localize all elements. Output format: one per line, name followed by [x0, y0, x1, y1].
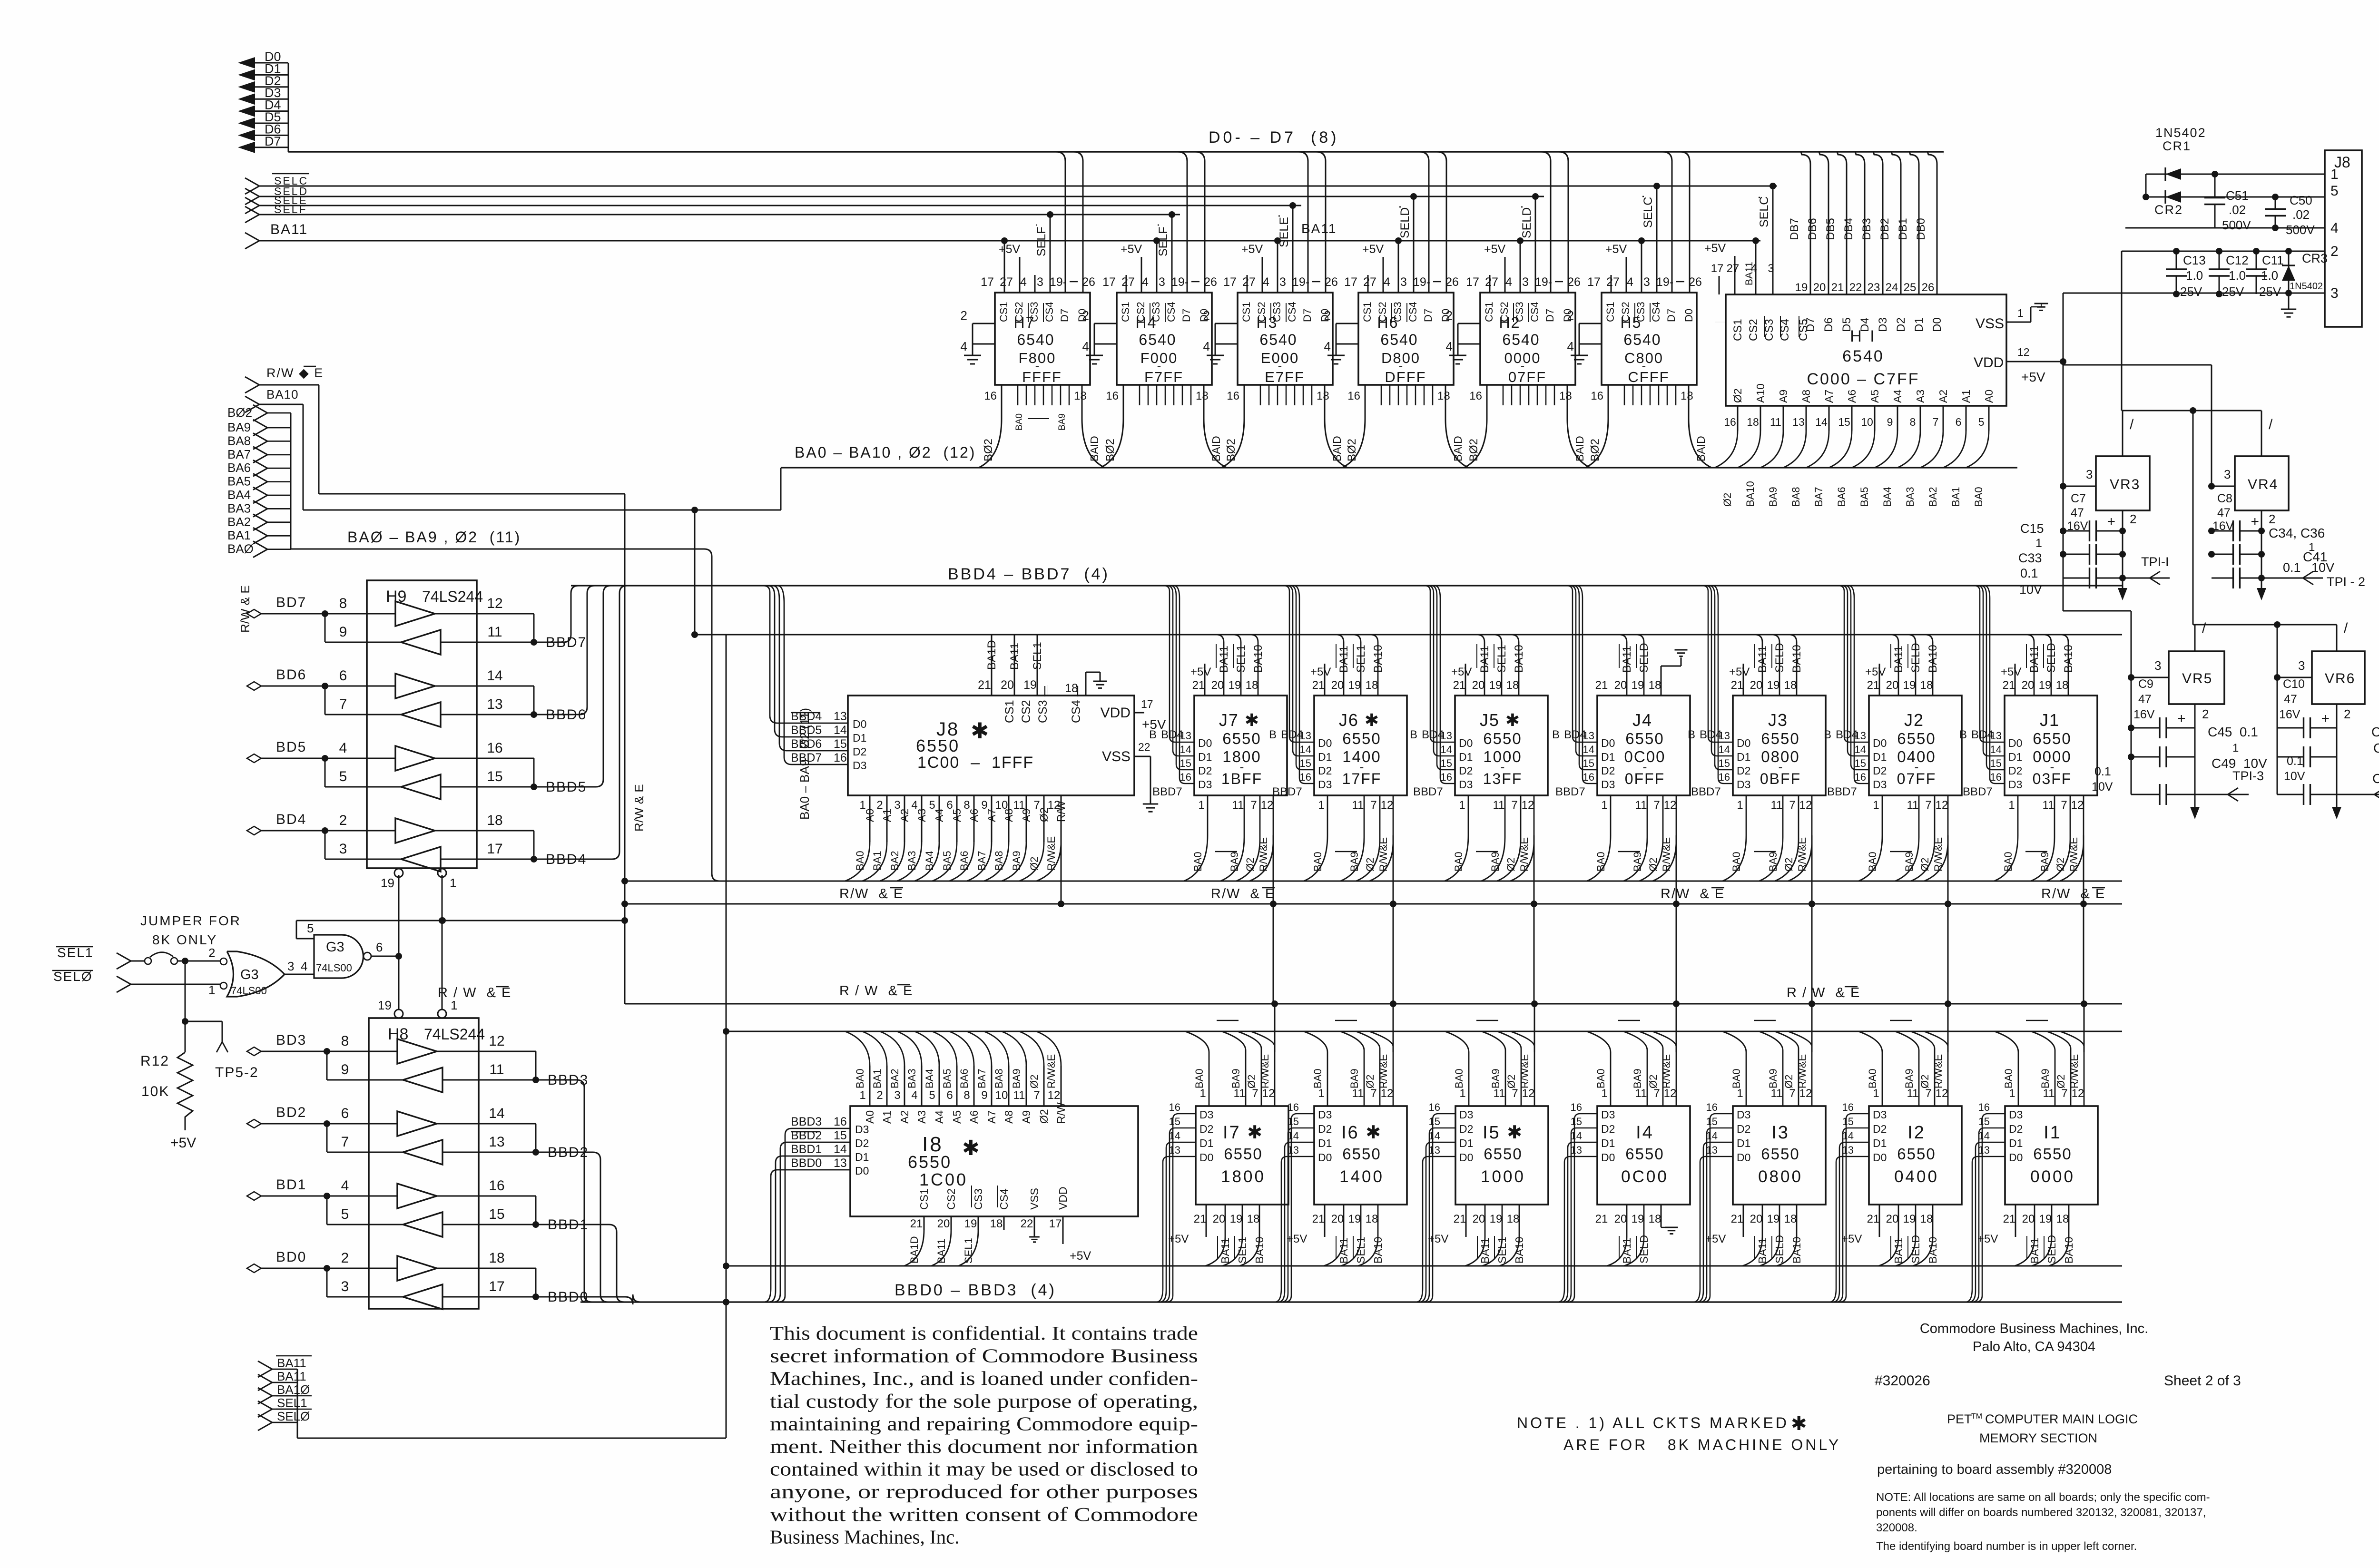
svg-text:D2: D2 [855, 1137, 869, 1149]
svg-text:2: 2 [339, 813, 347, 828]
svg-text:15: 15 [1300, 757, 1311, 769]
svg-text:D6: D6 [1822, 317, 1835, 332]
svg-text:CR1: CR1 [2163, 139, 2191, 153]
svg-text:15: 15 [1288, 1116, 1299, 1127]
svg-text:9: 9 [341, 1062, 349, 1078]
svg-text:18: 18 [1196, 390, 1209, 402]
svg-text:BD4: BD4 [1836, 728, 1858, 741]
svg-text:3: 3 [2154, 658, 2161, 673]
svg-text:27: 27 [1000, 275, 1013, 289]
svg-text:15: 15 [1706, 1116, 1718, 1127]
svg-text:16: 16 [1169, 1101, 1180, 1113]
regulator VR4 [2208, 365, 2289, 526]
svg-text:BA3: BA3 [227, 501, 251, 515]
svg-text:4: 4 [1384, 275, 1390, 289]
svg-text:I1: I1 [2044, 1123, 2062, 1143]
svg-text:3: 3 [287, 959, 294, 973]
svg-text:26: 26 [1325, 275, 1338, 289]
svg-text:CS1: CS1 [1120, 302, 1131, 322]
svg-text:D2: D2 [1318, 1123, 1332, 1135]
svg-text:16: 16 [984, 390, 997, 402]
svg-text:SEL1: SEL1 [277, 1396, 307, 1410]
svg-text:1: 1 [1737, 1087, 1743, 1100]
svg-text:16V: 16V [2212, 519, 2234, 533]
svg-text:47: 47 [2284, 693, 2297, 706]
svg-text:1: 1 [1318, 799, 1324, 812]
svg-text:1.0: 1.0 [2186, 268, 2203, 283]
svg-text:17: 17 [489, 1279, 504, 1294]
svg-text:D0: D0 [1199, 1151, 1213, 1164]
svg-text:D1: D1 [1913, 317, 1926, 332]
svg-text:24: 24 [1886, 281, 1898, 294]
ram J1 [1959, 586, 2097, 1004]
svg-text:Ø2: Ø2 [1783, 1075, 1795, 1088]
svg-text:18: 18 [1784, 1213, 1797, 1225]
svg-text:DFFF: DFFF [1385, 369, 1426, 385]
svg-text:13: 13 [1706, 1144, 1718, 1156]
svg-text:TP5-2: TP5-2 [215, 1065, 259, 1080]
svg-text:4: 4 [1567, 339, 1574, 353]
svg-text:D2: D2 [2009, 1123, 2023, 1135]
capacitor C51 [2204, 174, 2251, 232]
svg-text:R / W & E: R / W & E [1787, 985, 1860, 1000]
svg-text:6550: 6550 [1897, 730, 1936, 747]
svg-text:8: 8 [1910, 416, 1916, 428]
capacitor C50 [2265, 193, 2315, 237]
svg-text:16: 16 [1227, 390, 1239, 402]
svg-text:19-: 19- [1050, 275, 1067, 289]
svg-text:17: 17 [1466, 275, 1479, 289]
svg-text:6550: 6550 [1625, 730, 1664, 747]
svg-text:C13: C13 [2183, 253, 2206, 267]
svg-text:BA0: BA0 [1730, 852, 1742, 872]
svg-text:SEL1: SEL1 [1496, 1237, 1508, 1264]
svg-text:7: 7 [1250, 799, 1257, 812]
svg-text:BD2: BD2 [276, 1105, 306, 1120]
svg-text:7: 7 [341, 1134, 349, 1150]
svg-text:DB5: DB5 [1824, 218, 1837, 240]
svg-text:74LS244: 74LS244 [422, 588, 483, 605]
svg-text:2: 2 [2344, 707, 2350, 721]
svg-text:5: 5 [929, 1089, 935, 1102]
svg-text:19: 19 [1903, 1213, 1916, 1225]
svg-text:16V: 16V [2279, 708, 2300, 721]
svg-text:74LS00: 74LS00 [316, 962, 352, 974]
svg-text:16: 16 [1180, 771, 1191, 783]
svg-text:1: 1 [1737, 799, 1743, 812]
svg-text:6550: 6550 [1222, 730, 1261, 747]
svg-text:D7: D7 [1301, 309, 1313, 322]
svg-text:5: 5 [307, 921, 314, 935]
svg-text:16: 16 [1990, 771, 2002, 783]
svg-text:12: 12 [487, 596, 502, 611]
svg-text:SELC: SELC [1758, 196, 1771, 227]
svg-text:A9: A9 [1020, 1110, 1032, 1124]
svg-text:PET: PET [1947, 1412, 1972, 1426]
svg-text:CS3: CS3 [1392, 302, 1404, 322]
svg-text:1C00 – 1FFF: 1C00 – 1FFF [917, 754, 1034, 772]
svg-text:07FF: 07FF [1508, 369, 1546, 385]
svg-text:10V: 10V [2019, 582, 2042, 597]
svg-text:17: 17 [1587, 275, 1601, 289]
svg-text:16: 16 [1300, 771, 1311, 783]
svg-text:1: 1 [450, 876, 456, 890]
svg-text:BAID: BAID [1088, 436, 1101, 461]
svg-text:13: 13 [1978, 1144, 1990, 1156]
svg-text:4: 4 [339, 740, 347, 756]
capacitor C12 [2209, 248, 2249, 299]
regulator VR5 [2131, 620, 2224, 721]
svg-text:TPI-I: TPI-I [2141, 555, 2169, 569]
svg-text:D3: D3 [1459, 1108, 1473, 1121]
svg-text:12: 12 [1799, 1087, 1812, 1100]
svg-text:VDD: VDD [1974, 355, 2004, 371]
svg-text:BA0 – BA10 , Ø2 (12): BA0 – BA10 , Ø2 (12) [795, 444, 976, 461]
svg-text:ment. Neither this document no: ment. Neither this document nor informat… [770, 1435, 1198, 1457]
svg-text:.02: .02 [2229, 203, 2246, 217]
svg-text:✱: ✱ [971, 718, 989, 743]
svg-text:NOTE . 1) ALL CKTS MARKED: NOTE . 1) ALL CKTS MARKED [1517, 1414, 1789, 1431]
svg-text:BA4: BA4 [1881, 487, 1893, 507]
svg-text:7: 7 [1933, 416, 1939, 428]
svg-text:13FF: 13FF [1483, 770, 1523, 787]
svg-text:21: 21 [1731, 1213, 1744, 1225]
svg-text:VSS: VSS [1102, 749, 1131, 764]
svg-text:74LS244: 74LS244 [424, 1026, 485, 1043]
svg-text:8K ONLY: 8K ONLY [152, 932, 217, 947]
svg-text:3: 3 [341, 1279, 349, 1294]
svg-text:B: B [1149, 728, 1157, 741]
svg-text:BD4: BD4 [1971, 728, 1994, 741]
svg-text:14: 14 [1706, 1130, 1718, 1142]
svg-text:R/W&E: R/W&E [1377, 1054, 1389, 1088]
svg-text:14: 14 [487, 668, 502, 684]
svg-text:20: 20 [1331, 1213, 1344, 1225]
svg-text:D3: D3 [1873, 1108, 1887, 1121]
svg-text:Ø2: Ø2 [1647, 1075, 1659, 1088]
svg-text:12: 12 [1664, 799, 1677, 812]
svg-text:D0: D0 [1459, 737, 1473, 749]
svg-text:BA11: BA11 [277, 1356, 306, 1370]
svg-text:BAID: BAID [1331, 436, 1343, 461]
svg-text:Ø2: Ø2 [1647, 858, 1659, 872]
svg-text:21: 21 [2003, 679, 2015, 692]
svg-text:7: 7 [1653, 799, 1660, 812]
svg-text:BA11: BA11 [1892, 1237, 1905, 1264]
wire J8 pin2 line [2122, 251, 2325, 411]
svg-text:CFFF: CFFF [1628, 369, 1669, 385]
ram J8 [848, 635, 1166, 812]
svg-text:BA7: BA7 [227, 447, 251, 461]
svg-text:20: 20 [1001, 678, 1014, 692]
svg-text:COMPUTER MAIN LOGIC: COMPUTER MAIN LOGIC [1985, 1412, 2138, 1426]
svg-text:3: 3 [1400, 275, 1407, 289]
svg-text:19: 19 [1229, 679, 1241, 692]
svg-text:A5: A5 [1868, 390, 1881, 403]
svg-text:A0: A0 [864, 809, 876, 822]
wire R/W&amp;E feed line [319, 494, 628, 1004]
svg-text:18: 18 [1247, 1213, 1260, 1225]
svg-text:I2: I2 [1907, 1123, 1926, 1143]
svg-text:BD1: BD1 [276, 1177, 306, 1193]
svg-text:18: 18 [1506, 679, 1519, 692]
svg-text:18: 18 [1920, 1213, 1933, 1225]
svg-text:BA9: BA9 [1230, 1068, 1242, 1088]
svg-text:R/W&E: R/W&E [1661, 837, 1672, 872]
wire enable line G3 [296, 917, 625, 939]
svg-text:CS4: CS4 [998, 1188, 1010, 1210]
svg-text:CS4: CS4 [1407, 302, 1419, 322]
svg-text:BA5: BA5 [941, 1068, 953, 1088]
svg-text:BA0: BA0 [1312, 1068, 1324, 1088]
svg-text:A4: A4 [933, 809, 945, 822]
svg-text:BA0: BA0 [1192, 852, 1204, 872]
svg-text:SELD: SELD [1773, 643, 1786, 673]
wire BA10 input [245, 387, 303, 510]
svg-text:4: 4 [2330, 220, 2339, 236]
svg-text:✱: ✱ [962, 1137, 980, 1160]
svg-text:0.1: 0.1 [2020, 566, 2038, 580]
svg-text:BD4: BD4 [276, 812, 306, 827]
svg-text:11: 11 [1013, 1089, 1025, 1102]
svg-text:+5V: +5V [1705, 1233, 1726, 1245]
svg-text:BBD7: BBD7 [1827, 785, 1857, 798]
svg-text:J7 ✱: J7 ✱ [1219, 710, 1260, 730]
regulator VR3 [2063, 411, 2150, 526]
svg-text:SELD: SELD [2045, 643, 2058, 673]
svg-text:BA1: BA1 [1950, 487, 1962, 507]
svg-text:BBD0: BBD0 [791, 1156, 822, 1170]
svg-text:19: 19 [1795, 281, 1808, 294]
svg-text:26: 26 [1082, 275, 1095, 289]
svg-text:Ø2: Ø2 [1721, 493, 1733, 507]
svg-text:16: 16 [1571, 1101, 1582, 1113]
svg-text:BA9: BA9 [1489, 852, 1501, 872]
node D0-D7 output arrows [238, 49, 288, 153]
wire SELC [245, 174, 1777, 194]
svg-text:12: 12 [1522, 799, 1534, 812]
svg-text:A2: A2 [898, 1110, 911, 1124]
svg-text:/: / [2202, 620, 2206, 636]
svg-text:R/W&E: R/W&E [1932, 1054, 1944, 1088]
svg-text:8: 8 [963, 1089, 970, 1102]
svg-text:A4: A4 [933, 1110, 945, 1124]
svg-text:R/W&E: R/W&E [1661, 1054, 1672, 1088]
svg-text:13: 13 [489, 1134, 504, 1150]
ram I2 [1829, 1000, 1962, 1302]
svg-text:BA11: BA11 [1301, 221, 1337, 236]
svg-text:+5V: +5V [1977, 1233, 1998, 1245]
svg-text:D2: D2 [1873, 1123, 1887, 1135]
svg-text:11: 11 [1907, 799, 1919, 812]
svg-text:12: 12 [2071, 799, 2084, 812]
svg-text:+: + [2177, 711, 2186, 726]
svg-text:CS2: CS2 [1376, 302, 1388, 322]
svg-text:tial custody for the sole purp: tial custody for the sole purpose of ope… [770, 1390, 1198, 1412]
svg-text:D0: D0 [1318, 737, 1332, 749]
svg-text:15: 15 [1441, 757, 1452, 769]
svg-text:3: 3 [339, 841, 347, 857]
svg-text:+5V: +5V [1310, 666, 1331, 678]
svg-text:+5V: +5V [1841, 1233, 1862, 1245]
rom H3 [1203, 152, 1347, 468]
svg-text:BD4: BD4 [1161, 728, 1183, 741]
svg-text:/: / [2344, 620, 2348, 636]
svg-text:14: 14 [1978, 1130, 1990, 1142]
svg-text:13: 13 [1169, 1144, 1180, 1156]
svg-text:D2: D2 [1459, 1123, 1473, 1135]
svg-text:BA11: BA11 [1218, 646, 1230, 673]
svg-text:18: 18 [489, 1250, 504, 1266]
svg-text:BA11: BA11 [277, 1369, 306, 1383]
ram J3 [1688, 586, 1826, 1004]
svg-text:2: 2 [1203, 308, 1210, 323]
svg-text:VSS: VSS [1976, 316, 2004, 332]
svg-text:15: 15 [1429, 1116, 1440, 1127]
svg-text:07FF: 07FF [1897, 770, 1937, 787]
svg-text:Ø2: Ø2 [1028, 857, 1040, 871]
svg-text:13: 13 [487, 696, 502, 712]
svg-text:D0: D0 [1459, 1151, 1473, 1164]
svg-text:15: 15 [1169, 1116, 1180, 1127]
svg-text:3: 3 [2330, 285, 2339, 301]
svg-text:CS4: CS4 [1070, 700, 1083, 723]
svg-text:16: 16 [1591, 390, 1603, 402]
svg-text:7: 7 [1370, 799, 1376, 812]
svg-text:11: 11 [1494, 1087, 1505, 1100]
svg-text:2: 2 [208, 946, 215, 960]
svg-text:6: 6 [946, 1089, 953, 1102]
svg-text:R/W&E: R/W&E [1796, 837, 1808, 872]
svg-text:ARE FOR 8K MACHINE ONLY: ARE FOR 8K MACHINE ONLY [1563, 1436, 1841, 1453]
svg-text:20: 20 [1886, 679, 1899, 692]
svg-text:BAID: BAID [1573, 436, 1586, 461]
svg-text:14: 14 [1441, 744, 1452, 755]
svg-text:6540: 6540 [1623, 331, 1661, 348]
svg-text:C8: C8 [2217, 492, 2232, 505]
svg-text:MEMORY SECTION: MEMORY SECTION [1979, 1431, 2097, 1445]
svg-text:VR4: VR4 [2248, 477, 2278, 492]
svg-text:CS2: CS2 [1620, 302, 1632, 322]
svg-text:10V: 10V [2284, 770, 2305, 783]
svg-text:BA9: BA9 [1348, 1068, 1360, 1088]
svg-text:27: 27 [1363, 275, 1376, 289]
svg-text:C15: C15 [2020, 521, 2044, 536]
svg-text:I5 ✱: I5 ✱ [1483, 1123, 1524, 1143]
svg-text:BØ2: BØ2 [227, 405, 252, 420]
gate G3 NAND [296, 921, 399, 978]
svg-text:BA11: BA11 [1621, 646, 1633, 673]
svg-text:1: 1 [2008, 799, 2015, 812]
svg-text:A9: A9 [1020, 809, 1032, 822]
svg-text:Commodore Business Machines, I: Commodore Business Machines, Inc. [1920, 1321, 2148, 1336]
resistor R12 [140, 961, 196, 1151]
svg-text:D0: D0 [1737, 737, 1750, 749]
svg-text:Ø2: Ø2 [2055, 858, 2066, 872]
svg-text:16V: 16V [2133, 708, 2155, 721]
svg-text:19: 19 [1767, 679, 1780, 692]
svg-text:8: 8 [341, 1033, 349, 1049]
svg-text:CS1: CS1 [1483, 302, 1495, 322]
svg-text:+5V: +5V [1865, 666, 1886, 678]
svg-text:BA7: BA7 [976, 1068, 988, 1088]
svg-text:BD4: BD4 [1422, 728, 1444, 741]
svg-text:1: 1 [1601, 799, 1607, 812]
svg-text:16: 16 [834, 751, 847, 764]
svg-text:3: 3 [1522, 275, 1529, 289]
svg-text:BØ2: BØ2 [982, 439, 995, 461]
svg-text:+5V: +5V [1362, 243, 1384, 256]
svg-text:BA11: BA11 [1219, 1237, 1231, 1264]
svg-text:DB3: DB3 [1860, 218, 1873, 240]
svg-text:D0: D0 [1931, 317, 1944, 332]
svg-text:10K: 10K [141, 1084, 169, 1099]
svg-text:R / W & E: R / W & E [839, 983, 913, 999]
svg-text:D2: D2 [1199, 1123, 1213, 1135]
svg-text:+5V: +5V [1605, 243, 1627, 256]
svg-text:SELØ: SELØ [277, 1409, 310, 1423]
svg-text:CS3: CS3 [1635, 302, 1647, 322]
svg-text:CR3: CR3 [2302, 251, 2328, 265]
svg-text:47: 47 [2071, 506, 2084, 519]
svg-text:6550: 6550 [1897, 1145, 1936, 1163]
svg-text:D2: D2 [1873, 764, 1887, 777]
svg-text:BA0: BA0 [1312, 852, 1324, 872]
svg-text:BA8: BA8 [993, 851, 1005, 871]
svg-text:6550: 6550 [1342, 1145, 1381, 1163]
svg-text:21: 21 [1595, 679, 1608, 692]
svg-text:18: 18 [1507, 1213, 1520, 1225]
svg-text:D0: D0 [1318, 1151, 1332, 1164]
svg-text:1: 1 [1873, 799, 1879, 812]
svg-text:20: 20 [1614, 1213, 1627, 1225]
svg-text:7: 7 [1925, 799, 1931, 812]
svg-text:11: 11 [1771, 1087, 1783, 1100]
svg-text:B: B [1552, 728, 1560, 741]
svg-text:14: 14 [834, 1143, 847, 1156]
svg-text:20: 20 [1472, 679, 1485, 692]
svg-text:+5V: +5V [1729, 666, 1750, 678]
svg-text:/: / [2269, 417, 2273, 432]
svg-text:4: 4 [1263, 275, 1269, 289]
svg-text:D7: D7 [1804, 317, 1817, 332]
svg-text:27: 27 [1485, 275, 1498, 289]
ram J4 [1552, 586, 1690, 1004]
svg-text:Ø2: Ø2 [1028, 1075, 1040, 1088]
svg-text:18: 18 [1784, 679, 1797, 692]
svg-text:19: 19 [2039, 679, 2052, 692]
svg-text:A3: A3 [915, 809, 928, 822]
svg-text:6550: 6550 [1483, 730, 1522, 747]
svg-text:R/W & E: R/W & E [238, 585, 252, 633]
svg-text:J2: J2 [1904, 710, 1924, 730]
regulator VR6 [2274, 620, 2365, 721]
svg-text:20: 20 [1813, 281, 1826, 294]
svg-text:Ø2: Ø2 [1244, 858, 1256, 872]
svg-text:1N5402: 1N5402 [2155, 126, 2206, 140]
svg-text:A1: A1 [1960, 390, 1972, 403]
node title block [1875, 1321, 2241, 1553]
svg-text:14: 14 [1169, 1130, 1180, 1142]
svg-text:D3: D3 [1318, 1108, 1332, 1121]
svg-text:BBD7: BBD7 [1963, 785, 1993, 798]
svg-text:7: 7 [1653, 1087, 1660, 1100]
svg-text:SEL1: SEL1 [1236, 1237, 1248, 1264]
svg-text:18: 18 [1649, 679, 1661, 692]
svg-text:C44: C44 [2372, 771, 2379, 786]
wire riser from lower-left select stack [723, 635, 729, 1438]
svg-text:VR6: VR6 [2325, 671, 2355, 686]
